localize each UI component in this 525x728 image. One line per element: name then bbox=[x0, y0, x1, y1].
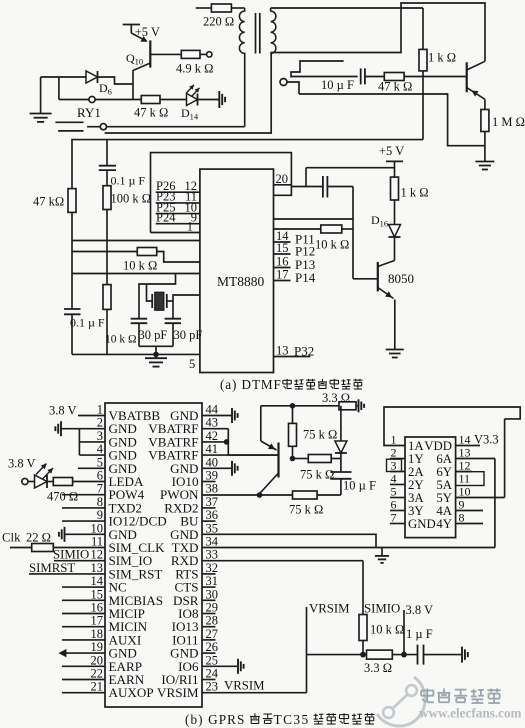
svg-text:SIMIO: SIMIO bbox=[364, 602, 400, 616]
svg-text:MT8880: MT8880 bbox=[217, 274, 265, 289]
resistor 47k left bbox=[33, 189, 76, 309]
relay contact RY1 bbox=[59, 96, 101, 120]
resistor 1k right bbox=[419, 8, 456, 140]
wire TXD bbox=[202, 547, 495, 549]
svg-text:17: 17 bbox=[91, 614, 104, 628]
junction bbox=[290, 403, 296, 409]
resistor 100k bbox=[103, 186, 151, 285]
pin 5 3A bbox=[390, 485, 424, 506]
svg-text:SIMIO: SIMIO bbox=[53, 548, 89, 562]
svg-text:10: 10 bbox=[459, 485, 471, 499]
wire bbox=[41, 76, 86, 78]
ground bbox=[475, 161, 494, 170]
svg-text:(b) GPRS: (b) GPRS bbox=[185, 712, 245, 727]
pin 9 node P24 bbox=[156, 211, 200, 225]
junction bbox=[360, 652, 366, 658]
svg-text:39: 39 bbox=[206, 469, 219, 483]
svg-text:0.1 µ F: 0.1 µ F bbox=[111, 174, 146, 188]
capacitor 10uF bbox=[321, 68, 365, 92]
capacitor 1uF bbox=[406, 627, 433, 665]
svg-text:32: 32 bbox=[206, 561, 219, 575]
box pin3 bbox=[387, 459, 402, 471]
svg-text:VRSIM: VRSIM bbox=[224, 679, 265, 693]
svg-text:Clk: Clk bbox=[2, 531, 21, 545]
net SIMIO bbox=[53, 548, 105, 562]
svg-text:36: 36 bbox=[206, 508, 219, 522]
wire bbox=[271, 3, 485, 61]
svg-text:10 k Ω: 10 k Ω bbox=[370, 623, 404, 637]
capacitor 30pF right bbox=[165, 319, 203, 347]
svg-text:GND: GND bbox=[408, 517, 436, 531]
audio arrow bbox=[59, 649, 106, 657]
wire bbox=[72, 273, 200, 275]
pin 19 GND bbox=[91, 640, 137, 661]
svg-text:1 k Ω: 1 k Ω bbox=[428, 51, 456, 65]
svg-text:3.3 Ω: 3.3 Ω bbox=[322, 391, 350, 405]
resistor 220 bbox=[196, 4, 245, 29]
pin 10 GND bbox=[91, 521, 137, 542]
svg-text:13: 13 bbox=[91, 561, 104, 575]
transformer secondary bbox=[271, 8, 276, 54]
caption a bbox=[220, 377, 362, 392]
capacitor 30pF left bbox=[131, 319, 168, 347]
pin 20 EARP bbox=[62, 653, 142, 674]
svg-text:4.9 k Ω: 4.9 k Ω bbox=[176, 62, 213, 76]
junction bbox=[401, 652, 407, 658]
pin 31 CTS bbox=[174, 574, 218, 595]
svg-text:P24: P24 bbox=[156, 211, 176, 225]
svg-text:19: 19 bbox=[91, 640, 104, 654]
resistor 10k vertical bbox=[103, 285, 137, 355]
LED D14 bbox=[181, 85, 200, 122]
svg-text:470 Ω: 470 Ω bbox=[47, 490, 78, 504]
resistor 1M bbox=[481, 110, 525, 162]
svg-text:3Y: 3Y bbox=[408, 504, 424, 518]
svg-text:0.1 µ F: 0.1 µ F bbox=[70, 316, 105, 330]
svg-text:7: 7 bbox=[391, 511, 397, 525]
wire bbox=[244, 54, 246, 127]
wire bbox=[58, 77, 60, 100]
svg-text:16: 16 bbox=[276, 255, 289, 269]
svg-text:6Y: 6Y bbox=[436, 465, 452, 479]
svg-text:38: 38 bbox=[206, 482, 219, 496]
pin 2 GND bbox=[97, 416, 137, 437]
pin 16 MICIP bbox=[62, 601, 145, 622]
svg-text:10: 10 bbox=[91, 521, 104, 535]
svg-text:30 pF: 30 pF bbox=[139, 328, 168, 342]
capacitor bbox=[291, 176, 353, 198]
pin 13 SIM_RST bbox=[91, 561, 163, 582]
wire bbox=[78, 467, 105, 469]
hook switch bbox=[291, 61, 344, 78]
net SIMRST bbox=[29, 561, 105, 575]
svg-text:30 pF: 30 pF bbox=[174, 328, 203, 342]
pin 11 SIM_CLK bbox=[91, 535, 165, 556]
pin 14 node P11 bbox=[274, 229, 315, 247]
svg-text:2: 2 bbox=[391, 446, 397, 460]
pin 13 node P32 bbox=[274, 344, 315, 359]
wire bbox=[274, 218, 354, 220]
svg-text:14: 14 bbox=[91, 574, 104, 588]
svg-text:5: 5 bbox=[97, 455, 103, 469]
pin 5 GND bbox=[97, 455, 137, 476]
svg-text:D14: D14 bbox=[181, 106, 199, 122]
pin 41 VBATRF bbox=[148, 442, 218, 463]
pin 43 VBATRF bbox=[148, 416, 218, 437]
svg-text:+5 V: +5 V bbox=[379, 144, 404, 158]
svg-text:8050: 8050 bbox=[388, 271, 414, 286]
svg-text:43: 43 bbox=[206, 416, 219, 430]
svg-text:VRSIM: VRSIM bbox=[157, 685, 199, 700]
svg-text:8: 8 bbox=[97, 495, 103, 509]
resistor 10k mid bbox=[72, 248, 200, 273]
svg-text:P14: P14 bbox=[295, 270, 316, 285]
ground bbox=[202, 408, 238, 423]
pin 14 NC bbox=[62, 574, 127, 595]
pin 3 GND bbox=[97, 429, 137, 450]
pin 42 VBATRF bbox=[148, 429, 218, 450]
net 3.8V bbox=[49, 404, 105, 418]
svg-text:11: 11 bbox=[459, 472, 471, 486]
svg-text:1: 1 bbox=[97, 403, 103, 417]
wire bbox=[173, 295, 200, 319]
svg-text:+5 V: +5 V bbox=[135, 25, 160, 39]
transistor Q10 bbox=[123, 25, 160, 100]
svg-text:10 µ F: 10 µ F bbox=[321, 78, 354, 92]
pin 11 node P23 bbox=[156, 190, 200, 204]
svg-text:9: 9 bbox=[459, 498, 465, 512]
svg-text:4Y: 4Y bbox=[436, 517, 452, 531]
svg-text:3.3 Ω: 3.3 Ω bbox=[364, 661, 392, 675]
pin 35 GND bbox=[170, 521, 218, 542]
svg-text:75 k Ω: 75 k Ω bbox=[300, 468, 334, 482]
wire bbox=[198, 99, 220, 101]
chip TC35 bbox=[105, 403, 202, 707]
resistor 75k mid bbox=[293, 455, 341, 482]
ground bbox=[375, 548, 389, 563]
svg-text:14: 14 bbox=[459, 433, 471, 447]
svg-text:4: 4 bbox=[97, 442, 104, 456]
diode D16 bbox=[371, 213, 401, 261]
svg-text:30: 30 bbox=[206, 587, 219, 601]
transistor PNP bbox=[228, 406, 278, 493]
wire bbox=[271, 7, 423, 9]
crystal X1 bbox=[147, 284, 174, 310]
svg-text:22 Ω: 22 Ω bbox=[26, 531, 51, 545]
pin 30 DSR bbox=[173, 587, 218, 608]
svg-text:10 µ F: 10 µ F bbox=[343, 479, 376, 493]
pin 7 GND bbox=[390, 511, 436, 532]
pin 12 SIM_IO bbox=[91, 548, 153, 569]
node line terminal bbox=[87, 124, 106, 130]
wire bbox=[352, 187, 354, 279]
resistor 10k bbox=[274, 225, 354, 252]
ground bbox=[145, 354, 167, 366]
pin 23 VRSIM bbox=[157, 680, 218, 701]
pin 10 5Y bbox=[436, 485, 470, 506]
pin 22 EARN bbox=[62, 667, 145, 688]
watermark text bbox=[419, 688, 522, 720]
svg-text:VDD: VDD bbox=[424, 439, 452, 453]
svg-text:13: 13 bbox=[459, 446, 471, 460]
svg-text:D6: D6 bbox=[99, 81, 112, 97]
svg-text:SIMRST: SIMRST bbox=[29, 561, 75, 575]
pin 7 POW4 bbox=[62, 482, 145, 503]
junction bbox=[153, 352, 159, 358]
pin 34 TXD bbox=[172, 535, 219, 556]
svg-text:3.8 V: 3.8 V bbox=[49, 404, 77, 418]
wire bbox=[139, 346, 173, 354]
ground bbox=[462, 647, 468, 663]
svg-text:V3.3: V3.3 bbox=[474, 433, 499, 447]
pin 17 MICIN bbox=[62, 614, 148, 635]
pin 4 GND bbox=[97, 442, 137, 463]
svg-text:10 k Ω: 10 k Ω bbox=[315, 238, 349, 252]
svg-text:12: 12 bbox=[459, 459, 471, 473]
pin 39 IO10 bbox=[172, 469, 218, 490]
svg-text:6: 6 bbox=[97, 469, 103, 483]
svg-text:1: 1 bbox=[187, 220, 193, 234]
svg-text:23: 23 bbox=[206, 680, 219, 694]
pin 15 node P12 bbox=[274, 241, 316, 259]
pin 12 6Y bbox=[436, 459, 471, 480]
wire bbox=[139, 274, 176, 319]
wire bbox=[291, 76, 358, 78]
svg-text:220 Ω: 220 Ω bbox=[203, 15, 234, 29]
pin 38 PWON bbox=[160, 482, 218, 503]
pin 26 GND bbox=[170, 640, 218, 661]
svg-text:10 k Ω: 10 k Ω bbox=[123, 259, 157, 273]
wire bbox=[261, 405, 339, 407]
svg-text:6A: 6A bbox=[436, 452, 452, 466]
svg-text:47 k Ω: 47 k Ω bbox=[378, 80, 412, 94]
pin 12 node P26 bbox=[156, 179, 200, 193]
svg-text:7: 7 bbox=[97, 482, 103, 496]
pin 25 IO6 bbox=[178, 653, 218, 674]
wire bbox=[95, 99, 141, 101]
pin 21 AUXOP bbox=[62, 680, 154, 701]
ground bbox=[202, 461, 238, 476]
mic terminal bbox=[280, 79, 287, 86]
svg-text:5Y: 5Y bbox=[436, 491, 452, 505]
svg-text:AUXOP: AUXOP bbox=[109, 685, 154, 700]
svg-text:15: 15 bbox=[276, 241, 289, 255]
svg-text:(a) DTMF: (a) DTMF bbox=[220, 377, 282, 392]
resistor 75k upper bbox=[289, 406, 338, 459]
svg-text:3: 3 bbox=[391, 459, 397, 473]
ground bbox=[59, 527, 105, 542]
net VRSIM bbox=[309, 602, 350, 616]
wire bbox=[287, 82, 299, 94]
transformer primary bbox=[239, 8, 244, 54]
caption b bbox=[185, 712, 375, 727]
svg-text:21: 21 bbox=[91, 680, 104, 694]
svg-text:10 k Ω: 10 k Ω bbox=[105, 334, 137, 346]
svg-text:20: 20 bbox=[276, 172, 289, 186]
pin 36 BU bbox=[180, 508, 218, 529]
ground bbox=[386, 349, 404, 358]
svg-text:18: 18 bbox=[91, 627, 104, 641]
resistor 47k bbox=[134, 96, 187, 120]
svg-text:75 k Ω: 75 k Ω bbox=[303, 428, 337, 442]
box pin11 bbox=[456, 472, 484, 486]
svg-text:20: 20 bbox=[91, 653, 104, 667]
resistor 47k top bbox=[365, 73, 412, 94]
pin 1 1A bbox=[391, 433, 425, 454]
svg-text:www.elecfans.com: www.elecfans.com bbox=[419, 706, 522, 721]
wire bbox=[299, 94, 485, 146]
svg-text:9: 9 bbox=[97, 508, 103, 522]
svg-text:13: 13 bbox=[276, 344, 289, 358]
svg-text:35: 35 bbox=[206, 521, 219, 535]
pin 15 MICBIAS bbox=[62, 587, 163, 608]
pin 17 node P14 bbox=[274, 268, 316, 286]
net 3.8V bbox=[404, 603, 433, 655]
line jack bars bbox=[55, 122, 83, 131]
pin 33 RXD bbox=[171, 548, 218, 569]
svg-text:16: 16 bbox=[91, 601, 104, 615]
pin 29 IO8 bbox=[178, 601, 218, 622]
svg-text:1 µ F: 1 µ F bbox=[406, 627, 433, 641]
pin 14 VDD bbox=[424, 433, 498, 454]
capacitor 0.1uF upper bbox=[99, 166, 146, 188]
svg-text:75 k Ω: 75 k Ω bbox=[289, 503, 323, 517]
pin 10 node P25 bbox=[156, 200, 200, 214]
svg-text:D16: D16 bbox=[371, 213, 388, 229]
svg-text:34: 34 bbox=[206, 535, 219, 549]
resistor 1k bbox=[391, 177, 429, 224]
wire RXD bbox=[202, 561, 363, 615]
pin 20 bbox=[274, 172, 292, 186]
pin 13 6A bbox=[436, 446, 470, 467]
svg-text:4: 4 bbox=[391, 472, 397, 486]
pin 24 IO/RI1 bbox=[161, 667, 218, 688]
wire bbox=[106, 140, 108, 166]
wire bbox=[107, 126, 245, 128]
wire pin5 bbox=[72, 354, 200, 371]
svg-text:100 k Ω: 100 k Ω bbox=[111, 192, 152, 206]
chip hex inverter bbox=[405, 437, 456, 538]
pin 9 4A bbox=[436, 498, 483, 519]
pin 3 2A bbox=[390, 459, 424, 480]
chip MT8880 bbox=[200, 169, 274, 372]
diode D6 bbox=[86, 71, 112, 97]
wire bbox=[306, 168, 395, 187]
svg-text:41: 41 bbox=[206, 442, 219, 456]
svg-text:1A: 1A bbox=[408, 439, 424, 453]
transformer core bbox=[256, 13, 260, 54]
pin 8 TXD2 bbox=[62, 495, 142, 516]
net Clk resistor 22 bbox=[2, 531, 105, 552]
junction bbox=[257, 492, 263, 498]
svg-text:42: 42 bbox=[206, 429, 219, 443]
ground bbox=[219, 91, 225, 108]
wire gnd bus bbox=[79, 429, 105, 455]
wire GND35 bbox=[202, 534, 376, 547]
svg-text:3A: 3A bbox=[408, 491, 424, 505]
wire bbox=[307, 654, 367, 656]
svg-text:2Y: 2Y bbox=[408, 478, 424, 492]
pin 6 LEDA bbox=[97, 469, 144, 490]
svg-text:17: 17 bbox=[276, 268, 289, 282]
svg-text:3.8 V: 3.8 V bbox=[406, 603, 434, 617]
transistor (line amp) bbox=[467, 61, 485, 109]
wire VBATRF bus bbox=[202, 429, 228, 455]
pin 11 5A bbox=[436, 472, 470, 493]
svg-text:P32: P32 bbox=[294, 344, 314, 359]
pin 40 GND bbox=[170, 455, 218, 476]
svg-text:1: 1 bbox=[391, 433, 397, 447]
pin 32 RTS bbox=[175, 561, 218, 582]
wire bbox=[98, 77, 134, 84]
svg-text:1 M Ω: 1 M Ω bbox=[492, 115, 525, 129]
pin 27 IO11 bbox=[172, 627, 218, 648]
wire 1A net bbox=[384, 407, 520, 446]
svg-text:RY1: RY1 bbox=[77, 105, 101, 120]
wire VRSIM bbox=[202, 607, 307, 693]
pin 37 RXD2 bbox=[164, 495, 218, 516]
pin 18 AUXI bbox=[62, 627, 141, 648]
wire bbox=[72, 240, 200, 242]
svg-text:8: 8 bbox=[459, 511, 465, 525]
pin 8 4Y bbox=[436, 511, 483, 532]
junction bbox=[290, 456, 296, 462]
svg-text:Q10: Q10 bbox=[126, 51, 143, 67]
resistor 3.3 top bbox=[322, 391, 358, 410]
svg-text:25: 25 bbox=[206, 653, 219, 667]
LED indicator bbox=[8, 457, 53, 489]
svg-text:37: 37 bbox=[206, 495, 219, 509]
wire PWON bbox=[202, 494, 341, 496]
watermark logo bbox=[377, 677, 425, 726]
svg-text:40: 40 bbox=[206, 455, 219, 469]
svg-text:TC35: TC35 bbox=[274, 712, 310, 727]
capacitor 10uF bbox=[330, 459, 376, 496]
resistor 10k bbox=[359, 602, 404, 655]
wire bbox=[424, 654, 462, 656]
svg-text:31: 31 bbox=[206, 574, 219, 588]
svg-text:4A: 4A bbox=[436, 504, 452, 518]
junction bbox=[224, 439, 230, 445]
capacitor 0.1uF lower bbox=[64, 309, 105, 354]
resistor 75k lower bbox=[289, 491, 323, 517]
svg-text:15: 15 bbox=[91, 587, 104, 601]
transistor 8050 bbox=[353, 261, 414, 350]
ground bbox=[55, 421, 79, 436]
svg-text:22: 22 bbox=[91, 667, 104, 681]
svg-text:44: 44 bbox=[206, 403, 219, 417]
svg-text:11: 11 bbox=[91, 535, 103, 549]
ground bbox=[202, 659, 244, 674]
svg-text:5: 5 bbox=[391, 485, 397, 499]
wire base bbox=[202, 454, 277, 456]
wire 5Y net bbox=[456, 419, 505, 498]
svg-text:3.8 V: 3.8 V bbox=[8, 457, 36, 471]
svg-text:28: 28 bbox=[206, 614, 219, 628]
pin 16 node P13 bbox=[274, 255, 316, 273]
pin 44 GND bbox=[170, 403, 219, 424]
pin 6 3Y bbox=[390, 498, 424, 519]
pin 28 IO13 bbox=[172, 614, 218, 635]
pin 1 bbox=[151, 220, 200, 234]
pin 4 2Y bbox=[390, 472, 424, 493]
svg-text:47 kΩ: 47 kΩ bbox=[33, 195, 64, 209]
resistor 4.9k bbox=[150, 50, 213, 75]
svg-text:1Y: 1Y bbox=[408, 452, 424, 466]
svg-text:26: 26 bbox=[206, 640, 219, 654]
svg-text:2A: 2A bbox=[408, 465, 424, 479]
pin 1 VBATBB bbox=[97, 403, 161, 424]
